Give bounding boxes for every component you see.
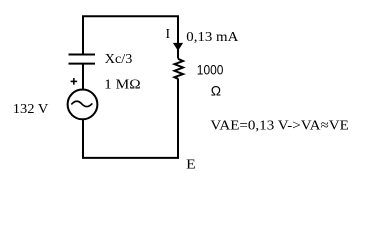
svg-text:VAE=0,13 V->VA≈VE: VAE=0,13 V->VA≈VE bbox=[210, 119, 349, 134]
svg-text:132 V: 132 V bbox=[13, 102, 49, 117]
svg-text:Xc/3: Xc/3 bbox=[105, 52, 133, 67]
svg-text:I: I bbox=[166, 27, 171, 42]
svg-text:E: E bbox=[186, 158, 196, 173]
svg-text:1000: 1000 bbox=[197, 62, 224, 78]
svg-text:Ω: Ω bbox=[211, 83, 221, 99]
svg-text:0,13 mA: 0,13 mA bbox=[186, 30, 239, 45]
svg-text:1 MΩ: 1 MΩ bbox=[104, 78, 141, 93]
